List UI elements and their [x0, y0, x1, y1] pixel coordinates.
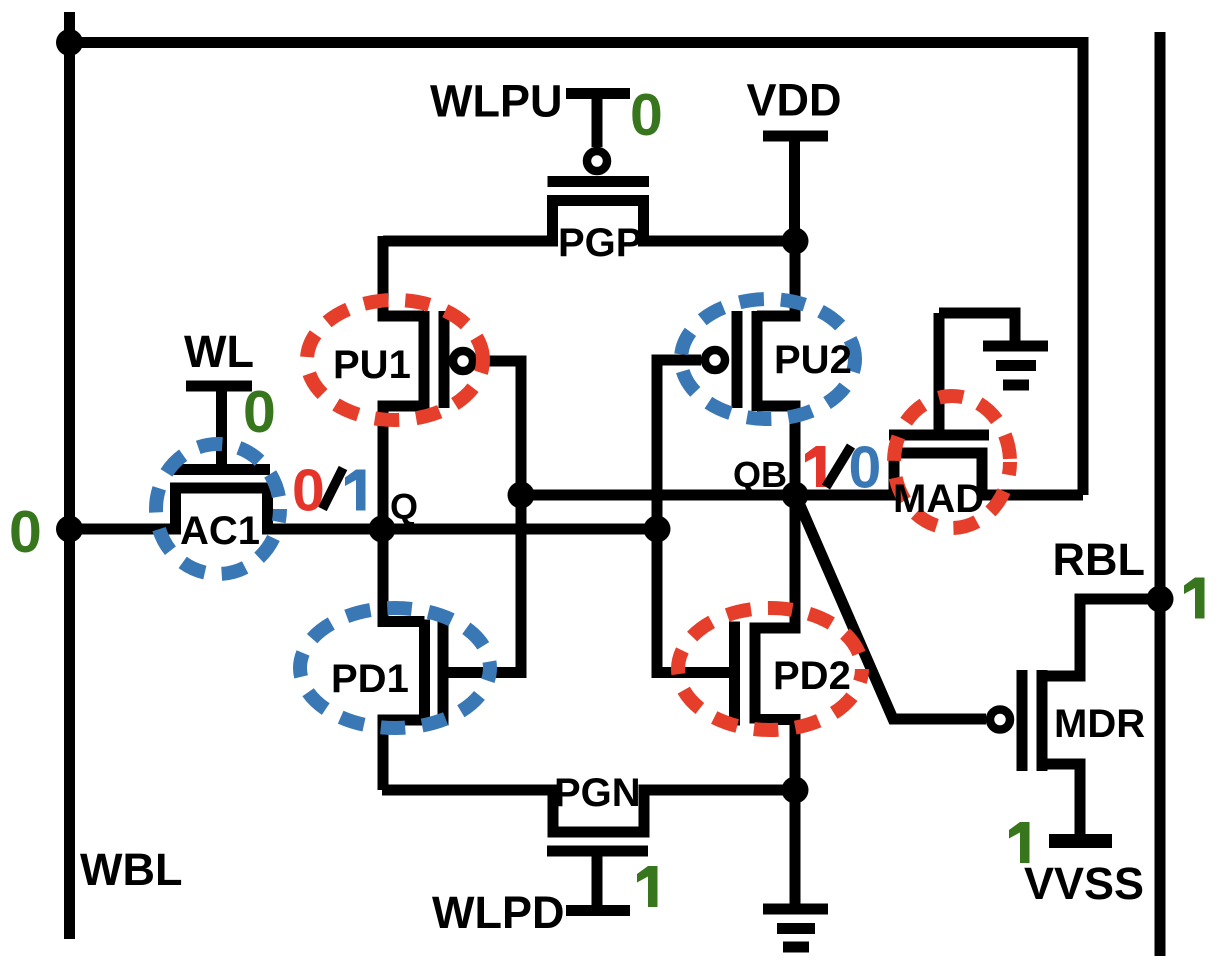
svg-text:0: 0: [630, 82, 663, 148]
svg-text:RBL: RBL: [1053, 534, 1145, 585]
svg-text:PGP: PGP: [558, 221, 642, 265]
svg-text:0: 0: [849, 435, 882, 501]
svg-text:Q: Q: [390, 486, 418, 527]
svg-text:MAD: MAD: [893, 477, 984, 521]
svg-text:PU1: PU1: [333, 343, 411, 387]
svg-text:PD2: PD2: [773, 654, 851, 698]
svg-text:PD1: PD1: [331, 657, 409, 701]
svg-text:MDR: MDR: [1054, 702, 1145, 746]
svg-text:WL: WL: [184, 326, 254, 377]
svg-text:VDD: VDD: [747, 75, 842, 126]
svg-text:WLPD: WLPD: [432, 887, 564, 938]
svg-text:VVSS: VVSS: [1024, 858, 1144, 909]
svg-text:WLPU: WLPU: [430, 76, 562, 127]
svg-text:WBL: WBL: [80, 844, 182, 895]
svg-text:PU2: PU2: [774, 338, 852, 382]
svg-text:0: 0: [9, 499, 42, 565]
svg-text:QB: QB: [733, 454, 787, 495]
svg-text:AC1: AC1: [180, 509, 260, 553]
svg-text:PGN: PGN: [554, 771, 641, 815]
svg-text:0: 0: [243, 379, 276, 445]
svg-text:0: 0: [292, 458, 325, 524]
